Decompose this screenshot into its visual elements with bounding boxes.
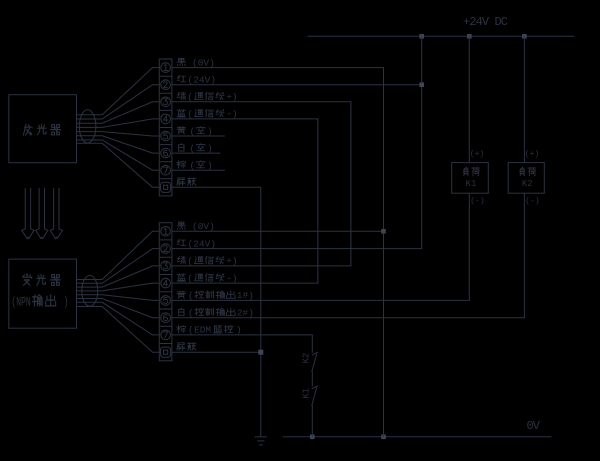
junction red drop / TB1 pin2	[419, 82, 424, 87]
junction 0V/black drop	[381, 435, 386, 440]
load K1 box	[452, 163, 489, 194]
wire TB2 pin3 绿(通信线+)	[172, 265, 351, 267]
wire TB1 pin4 蓝(通信线-)	[172, 118, 318, 120]
wire EDM to contact K2	[311, 335, 313, 353]
wire +24V drop (red)	[421, 36, 423, 248]
wire TB2 pin6 白(控制输出2#)	[172, 317, 525, 319]
wire green link (通信线+)	[350, 102, 352, 266]
svg-text:(: (	[188, 325, 194, 336]
wire TB2 pin1 黑(0V)	[172, 230, 384, 232]
svg-text:(: (	[187, 256, 193, 267]
svg-text:(: (	[190, 160, 196, 171]
TB1 (emitter) pin 7	[161, 165, 171, 175]
svg-text:2#): 2#)	[237, 308, 254, 319]
TB1 (emitter) pin 1	[161, 63, 171, 73]
svg-text:): )	[207, 143, 213, 154]
contact K2 label	[302, 353, 312, 364]
+24V DC label	[463, 15, 508, 29]
svg-text:0V: 0V	[527, 419, 541, 433]
load K2 box	[508, 163, 544, 194]
junction shield link / TB2 shield	[258, 350, 263, 355]
label TB1 蓝(通信线-)	[177, 109, 238, 120]
TB2 (receiver) pin 5	[161, 296, 171, 306]
0V label	[527, 419, 541, 433]
TB2 (receiver) pin 2	[161, 244, 171, 254]
svg-text:(: (	[190, 126, 196, 137]
terminal strip TB1 (emitter)	[159, 59, 172, 196]
load K1 label 负荷 K1	[464, 167, 480, 189]
svg-text:-): -)	[226, 273, 237, 284]
svg-text:): )	[236, 325, 242, 336]
wire TB2 pin8 屏蔽	[172, 351, 261, 353]
svg-text:(-): (-)	[525, 197, 539, 206]
svg-text:): )	[64, 296, 69, 310]
wire TB1 pin2 红(24V)	[172, 84, 422, 86]
TB1 (emitter) pin 4	[161, 114, 171, 124]
wire +24V to K2 (+)	[523, 36, 525, 162]
wire TB1 pin3 绿(通信线+)	[172, 101, 351, 103]
svg-text:+): +)	[226, 92, 237, 103]
wire TB1 pin7 棕(空)	[172, 169, 225, 171]
label TB2 红(24V)	[177, 238, 216, 249]
svg-text:(+): (+)	[470, 150, 484, 159]
wire contact K1 to 0V rail	[311, 405, 313, 436]
TB2 (receiver) pin 7	[161, 330, 171, 340]
emitter box 发光器	[9, 95, 77, 163]
TB1 (emitter) pin shield	[161, 182, 171, 192]
TB2 (receiver) pin 6	[161, 313, 171, 323]
svg-text:(NPN: (NPN	[11, 296, 30, 310]
svg-text:(+): (+)	[525, 150, 539, 159]
svg-text:+24V DC: +24V DC	[463, 15, 508, 29]
svg-text:(: (	[190, 143, 196, 154]
TB2 (receiver) pin shield	[161, 347, 171, 357]
label TB2 白(控制输出2#)	[179, 308, 254, 319]
TB1 (emitter) pin 6	[161, 148, 171, 158]
label TB1 红(24V)	[177, 75, 216, 86]
emitter label 发光器	[23, 124, 60, 135]
label TB2 黑(0V)	[177, 221, 215, 232]
label TB2 绿(通信线+)	[177, 256, 237, 267]
svg-text:(24V): (24V)	[188, 75, 217, 86]
TB2 (receiver) pin 4	[161, 278, 171, 288]
wire 0V drop (black)	[383, 68, 385, 437]
label TB1 屏蔽	[177, 178, 196, 186]
receiver box 受光器 NPN输出	[9, 259, 77, 328]
wire TB2 pin7 棕(EDM监控)	[172, 334, 313, 336]
label TB2 屏蔽	[177, 343, 196, 351]
svg-text:K1: K1	[302, 388, 312, 399]
wire shield link	[260, 187, 262, 436]
label TB1 白(空)	[179, 143, 213, 154]
load K2 label 负荷 K2	[520, 167, 536, 189]
light beam arrow 2	[36, 188, 48, 238]
svg-text:K2: K2	[302, 353, 312, 364]
wire +24V to K1 (+)	[468, 36, 470, 162]
wire TB2 pin4 蓝(通信线-)	[172, 282, 318, 284]
relay contact K2	[312, 352, 318, 371]
wire TB1 pin1 黑(0V)	[172, 67, 384, 69]
wire TB1 pin5 黄(空)	[172, 135, 225, 137]
TB1 (emitter) pin 5	[161, 131, 171, 141]
svg-text:(: (	[187, 273, 193, 284]
svg-text:-): -)	[226, 109, 237, 120]
TB1 (emitter) pin 2	[161, 80, 171, 90]
K1 (+) label	[470, 150, 484, 159]
TB1 (emitter) pin 3	[161, 97, 171, 107]
wire blue link (通信线-)	[317, 119, 319, 283]
label TB1 棕(空)	[177, 160, 213, 171]
receiver label (NPN输出)	[11, 295, 68, 311]
light beam arrow 1	[22, 188, 34, 238]
terminal strip TB2 (receiver)	[159, 223, 172, 361]
wire contact K2 to contact K1	[311, 372, 313, 386]
light beam arrow 3	[50, 188, 62, 238]
0V rail	[283, 436, 551, 438]
emitter cable bundle	[77, 68, 160, 188]
svg-text:): )	[207, 126, 213, 137]
relay contact K1	[312, 386, 318, 406]
label TB2 棕(EDM监控)	[177, 325, 242, 336]
K2 (-) label	[525, 197, 539, 206]
junction 0V/contact chain	[310, 435, 315, 440]
ground symbol	[255, 437, 266, 445]
svg-text:EDM: EDM	[194, 325, 211, 336]
receiver cable bundle	[77, 231, 160, 352]
receiver label 受光器	[22, 274, 60, 285]
svg-text:+): +)	[226, 256, 237, 267]
wire K2 (-) to white output	[523, 193, 525, 318]
junction black drop / TB2 pin1	[381, 229, 386, 234]
wire TB2 pin2 红(24V)	[172, 248, 422, 250]
K1 (-) label	[470, 197, 484, 206]
label TB2 蓝(通信线-)	[177, 273, 238, 284]
svg-text:): )	[207, 160, 213, 171]
svg-text:(0V): (0V)	[192, 57, 215, 68]
junction +24V/K2	[522, 34, 527, 39]
svg-text:(: (	[187, 92, 193, 103]
svg-text:(: (	[187, 109, 193, 120]
junction +24V/red drop	[419, 34, 424, 39]
svg-text:1#): 1#)	[237, 290, 254, 301]
contact K1 label	[302, 388, 312, 399]
svg-text:(: (	[188, 308, 194, 319]
svg-text:(: (	[188, 290, 194, 301]
wire TB1 pin6 白(空)	[172, 152, 220, 154]
label TB1 绿(通信线+)	[177, 92, 237, 103]
label TB1 黄(空)	[177, 126, 213, 137]
label TB2 黄(控制输出1#)	[177, 290, 254, 301]
svg-text:(-): (-)	[470, 197, 484, 206]
wire TB1 pin8 屏蔽	[172, 186, 261, 188]
TB2 (receiver) pin 3	[161, 261, 171, 271]
wire K1 (-) to yellow output	[468, 193, 470, 300]
K2 (+) label	[525, 150, 539, 159]
TB2 (receiver) pin 1	[161, 227, 171, 237]
+24V rail	[308, 35, 574, 37]
wire TB2 pin5 黄(控制输出1#)	[172, 299, 469, 301]
junction +24V/K1	[467, 34, 472, 39]
svg-text:K1: K1	[466, 179, 477, 189]
label TB1 黑(0V)	[177, 57, 215, 68]
svg-text:K2: K2	[522, 179, 533, 189]
svg-text:(0V): (0V)	[192, 221, 215, 232]
svg-text:(24V): (24V)	[188, 238, 217, 249]
